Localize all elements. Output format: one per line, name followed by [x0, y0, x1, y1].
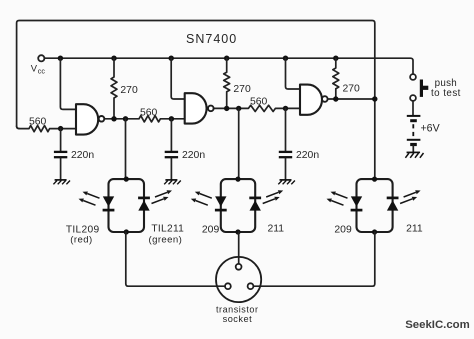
svg-text:270: 270 [120, 85, 138, 96]
svg-text:SN7400: SN7400 [186, 32, 237, 46]
svg-text:209: 209 [334, 224, 352, 235]
svg-text:209: 209 [202, 224, 220, 235]
svg-text:TIL211: TIL211 [151, 224, 184, 235]
svg-text:220n: 220n [296, 150, 319, 161]
svg-text:+6V: +6V [421, 122, 441, 134]
svg-text:560: 560 [29, 116, 47, 127]
svg-text:220n: 220n [182, 150, 205, 161]
svg-text:270: 270 [233, 84, 251, 95]
svg-text:cc: cc [38, 67, 46, 76]
svg-text:211: 211 [406, 224, 423, 235]
svg-text:220n: 220n [71, 150, 94, 161]
svg-text:to test: to test [431, 88, 461, 99]
svg-text:socket: socket [223, 314, 253, 324]
svg-text:560: 560 [140, 108, 158, 119]
svg-text:V: V [31, 62, 38, 73]
svg-text:(green): (green) [149, 235, 183, 246]
svg-text:(red): (red) [70, 234, 92, 245]
svg-text:211: 211 [268, 224, 285, 235]
svg-text:transistor: transistor [216, 304, 259, 314]
svg-text:270: 270 [343, 84, 361, 95]
svg-text:560: 560 [250, 97, 268, 108]
svg-text:SeekIC.com: SeekIC.com [405, 319, 470, 331]
